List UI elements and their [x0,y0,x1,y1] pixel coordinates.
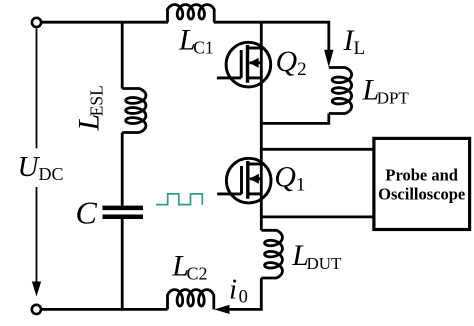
probe and oscilloscope box [374,138,470,229]
wire from LDPT bottom to mid node [261,114,329,124]
svg-text:IL: IL [343,24,366,59]
wire bottom bus to - terminal [41,308,168,311]
svg-text:UDC: UDC [18,151,64,184]
svg-text:LESL: LESL [73,85,107,131]
arrow IL current direction [324,50,333,67]
voltage arrow UDC line upper [36,29,38,149]
wire probe bottom tap [261,215,374,218]
terminal positive [32,18,41,27]
inductor LC1 [168,5,215,23]
svg-text:C: C [76,194,98,230]
wire ESL branch drop [121,22,124,88]
svg-text:Probe and: Probe and [385,166,458,185]
voltage arrow UDC line lower with arrowhead [36,187,38,292]
inductor LDUT [261,230,282,278]
svg-text:i0: i0 [229,274,248,308]
svg-text:Q2: Q2 [276,45,307,80]
svg-text:LDUT: LDUT [291,239,342,273]
svg-text:Oscilloscope: Oscilloscope [378,185,465,204]
wire top bus from + terminal to LC1 [41,21,168,24]
svg-text:Q1: Q1 [274,160,305,195]
wire LESL to capacitor [121,133,124,206]
inductor LDPT [329,68,352,114]
arrow i0 current direction [214,305,229,314]
wire LDUT bottom to bottom bus [228,278,261,309]
gate drive double-pulse waveform [156,194,202,205]
wire main half-bridge vertical [260,22,263,230]
inductor LESL [122,89,146,133]
inductor LC2 [168,290,214,310]
wire probe top tap [261,148,374,151]
svg-text:LC1: LC1 [178,23,214,57]
transistor Q1 (MOSFET, device under test) [217,158,271,203]
capacitor C plates [103,206,144,211]
svg-text:LDPT: LDPT [362,74,410,108]
terminal negative [32,305,41,314]
wire capacitor to bottom bus [121,219,124,311]
svg-text:LC2: LC2 [171,249,207,283]
wire top bus from LC1 to right corner [214,22,329,55]
transistor Q2 (MOSFET, high side) [217,42,271,87]
